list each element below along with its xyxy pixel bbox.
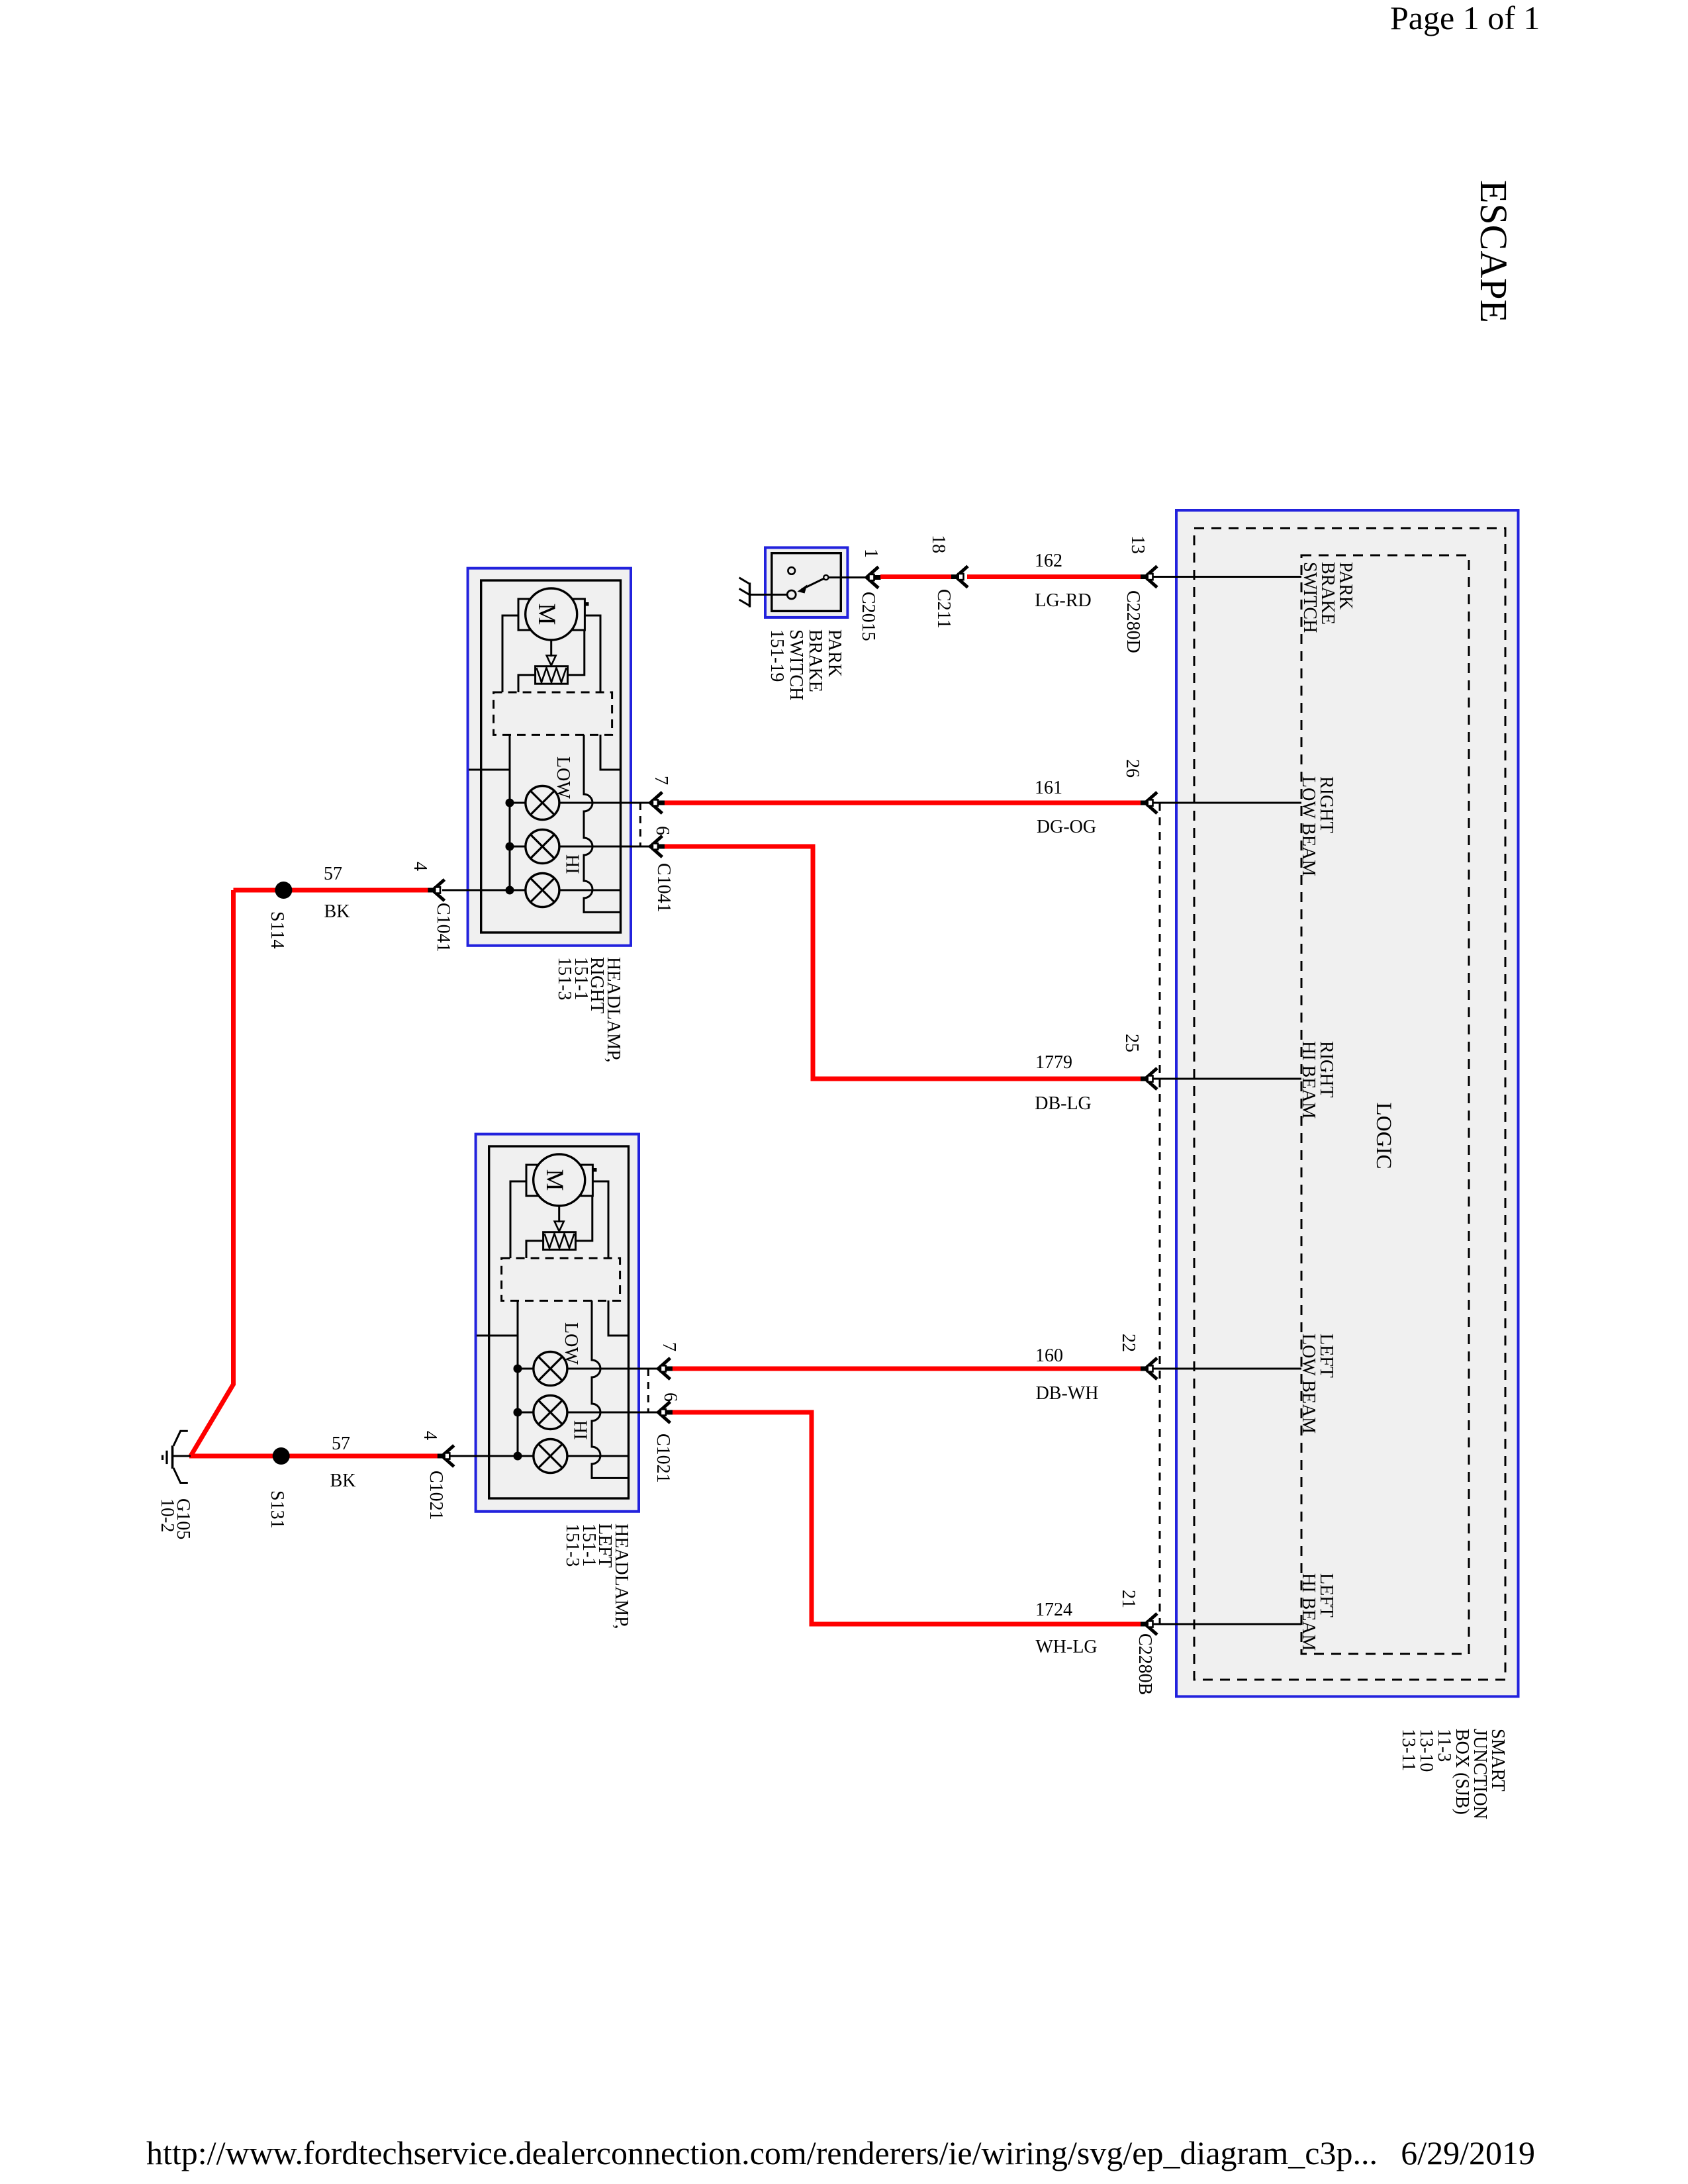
- ground (park brake switch, hatched): [739, 578, 750, 608]
- leveling motor brush (left): [518, 599, 530, 630]
- svg-text:13-11: 13-11: [1398, 1729, 1419, 1771]
- svg-text:21: 21: [1118, 1590, 1139, 1608]
- switch blade with arrowhead: [802, 578, 824, 590]
- internal module (dashed): [502, 1258, 620, 1300]
- svg-text:SWITCH: SWITCH: [786, 629, 806, 700]
- junction dot row 3: [506, 886, 514, 895]
- lamp ground bus: [509, 735, 511, 890]
- wire 1779 (right hi beam): [664, 846, 1141, 1079]
- switch fixed contact (open): [788, 567, 795, 574]
- park brake switch box (blue case): [765, 547, 847, 617]
- headlamp right inner box: [481, 580, 621, 933]
- wire motor shaft to resistor (arrow): [558, 1206, 560, 1222]
- wire row pin 6 (hi beam lamp): [518, 1412, 658, 1414]
- SJB pin 22 label: LEFT LOW BEAM: [1298, 1334, 1336, 1433]
- svg-text:M: M: [533, 604, 560, 625]
- wire row pin 4 (ground): [442, 889, 621, 891]
- SJB internal wire to pin 21: [1152, 1623, 1301, 1625]
- svg-text:C2280D: C2280D: [1123, 590, 1143, 653]
- SJB internal wire to pin 25: [1152, 1078, 1301, 1080]
- polarity dot: [593, 1168, 597, 1172]
- svg-text:S131: S131: [267, 1490, 287, 1529]
- svg-text:LOW: LOW: [553, 756, 573, 799]
- wire module stub B: [608, 1300, 629, 1336]
- lamp ground bus: [517, 1300, 519, 1456]
- junction dot row 1: [514, 1365, 522, 1373]
- junction dot row 2: [514, 1408, 522, 1417]
- svg-text:13: 13: [1127, 535, 1148, 554]
- lamp (third bulb): [526, 874, 559, 907]
- wire motor shaft to resistor (arrow): [550, 640, 552, 657]
- svg-text:LOGIC: LOGIC: [1372, 1103, 1395, 1169]
- lamp HI (bulb): [534, 1396, 567, 1430]
- connector C2280 dashed line: [1159, 803, 1161, 1624]
- ground G105 label: [157, 1498, 193, 1539]
- wire motor left brush: [502, 615, 518, 692]
- motor M2 circle: [534, 1154, 585, 1206]
- headlamp left inner box: [489, 1146, 629, 1498]
- SJB box (blue case): [1176, 510, 1519, 1696]
- wire case jog to lamp bus: [469, 769, 510, 771]
- svg-text:18: 18: [928, 535, 949, 553]
- svg-text:1779: 1779: [1035, 1052, 1072, 1073]
- svg-text:Page 1 of 1: Page 1 of 1: [1390, 0, 1540, 36]
- svg-text:26: 26: [1122, 759, 1143, 778]
- SJB LOGIC block (dashed): [1301, 555, 1469, 1654]
- svg-text:7: 7: [651, 776, 671, 785]
- svg-text:C211: C211: [933, 589, 954, 629]
- switch contact at pin 1: [823, 575, 828, 580]
- leveling motor brush (right): [573, 599, 585, 630]
- svg-text:ESCAPE: ESCAPE: [1472, 180, 1515, 323]
- headlamp right box (blue case): [468, 569, 631, 946]
- park brake switch inner box: [772, 553, 841, 612]
- junction dot row 2: [506, 842, 514, 851]
- lamp HI (bulb): [526, 830, 559, 864]
- svg-text:57: 57: [324, 864, 342, 884]
- svg-text:151-3: 151-3: [562, 1524, 583, 1567]
- wire: switch to ground: [750, 594, 788, 596]
- svg-text:SWITCH: SWITCH: [1299, 562, 1320, 633]
- headlamp right pin 4 arrow: [428, 880, 445, 901]
- svg-text:BK: BK: [330, 1471, 356, 1491]
- headlamp left pin 6 arrow: [658, 1402, 673, 1423]
- leveling motor brush (left): [526, 1165, 538, 1196]
- wire 57 BK (right, S114 to C1041 pin 4): [234, 888, 430, 893]
- svg-text:C1021: C1021: [426, 1471, 446, 1520]
- wire row pin 4 (ground): [442, 1455, 629, 1457]
- SJB pin 26 label: RIGHT LOW BEAM: [1298, 776, 1336, 876]
- wire motor right brush: [592, 1181, 608, 1258]
- ground wire trunk (S114 to G105): [191, 890, 234, 1456]
- svg-text:6/29/2019: 6/29/2019: [1401, 2134, 1535, 2171]
- SJB pin 21 arrow (C2280B): [1141, 1614, 1157, 1635]
- lamp LOW (bulb): [526, 786, 559, 820]
- internal module (dashed): [494, 692, 612, 735]
- svg-text:WH-LG: WH-LG: [1035, 1637, 1097, 1657]
- splice S114: [275, 882, 292, 899]
- connector C211 arrow: [951, 567, 968, 588]
- svg-text:LOW BEAM: LOW BEAM: [1298, 1334, 1319, 1433]
- svg-text:BK: BK: [324, 901, 350, 922]
- svg-text:25: 25: [1121, 1034, 1142, 1052]
- svg-text:C1041: C1041: [433, 903, 453, 952]
- svg-text:PARK: PARK: [824, 629, 845, 677]
- headlamp right pin 6 arrow: [650, 836, 665, 857]
- svg-text:DB-WH: DB-WH: [1036, 1383, 1099, 1404]
- svg-text:57: 57: [332, 1433, 350, 1454]
- svg-text:LOW BEAM: LOW BEAM: [1298, 776, 1319, 876]
- svg-text:C2015: C2015: [858, 592, 878, 641]
- svg-text:1: 1: [861, 549, 881, 558]
- SJB pin 21 label: LEFT HI BEAM: [1298, 1573, 1336, 1651]
- wire: switch to pin 1: [829, 576, 867, 578]
- wire resistor left: [526, 1241, 543, 1258]
- motor M1 circle: [526, 588, 577, 640]
- wire 160 (left low beam): [672, 1367, 1141, 1371]
- svg-text:M: M: [541, 1169, 568, 1191]
- wire row pin 6 (hi beam lamp): [510, 846, 650, 848]
- park brake switch label: [767, 629, 845, 700]
- SJB name label: SMART JUNCTION BOX (SJB) 11-3 13-10 13-11: [1398, 1729, 1508, 1819]
- svg-text:HI: HI: [570, 1420, 590, 1440]
- SJB internal wire to pin 22: [1152, 1368, 1301, 1370]
- leveling motor brush (right): [581, 1165, 592, 1196]
- headlamp left pin 4 arrow: [438, 1445, 454, 1467]
- svg-text:C1041: C1041: [653, 863, 674, 913]
- variable resistor (leveling): [536, 666, 568, 684]
- connector C1041 dashed link (pins 7-6): [639, 803, 641, 846]
- wire module stub B: [600, 735, 621, 770]
- svg-text:162: 162: [1035, 551, 1062, 571]
- junction dot row 1: [506, 799, 514, 807]
- connector C1021 dashed link (pins 7-6): [647, 1369, 649, 1412]
- svg-text:7: 7: [659, 1342, 679, 1351]
- svg-text:DB-LG: DB-LG: [1035, 1093, 1092, 1114]
- SJB outer dashed boundary: [1194, 528, 1505, 1680]
- wire resistor right: [576, 1196, 592, 1241]
- svg-text:C1021: C1021: [653, 1433, 673, 1483]
- svg-text:4: 4: [410, 862, 430, 871]
- lamp LOW (bulb): [534, 1352, 567, 1386]
- svg-text:151-19: 151-19: [767, 629, 787, 682]
- svg-text:1724: 1724: [1035, 1600, 1072, 1620]
- lamp (third bulb): [534, 1439, 567, 1473]
- SJB internal wire to pin 13: [1152, 576, 1301, 578]
- headlamp right pin 7 arrow: [650, 792, 665, 813]
- wire module stub A (with crossover hops): [584, 735, 621, 912]
- svg-text:6: 6: [660, 1392, 680, 1402]
- wire resistor right: [568, 630, 585, 675]
- wire row pin 7 (low beam lamp): [518, 1368, 658, 1370]
- wire row pin 7 (low beam lamp): [510, 802, 650, 804]
- svg-text:22: 22: [1118, 1334, 1139, 1352]
- polarity dot: [585, 602, 589, 606]
- svg-text:6: 6: [652, 826, 673, 835]
- SJB pin 22 arrow: [1141, 1358, 1157, 1379]
- wire 162 segment (C211 to SJB pin 13): [967, 574, 1141, 579]
- headlamp left box (blue case): [476, 1134, 639, 1512]
- svg-text:HI BEAM: HI BEAM: [1298, 1041, 1319, 1119]
- svg-text:HI BEAM: HI BEAM: [1298, 1573, 1319, 1651]
- wire resistor left: [518, 675, 536, 692]
- connector pin 1 (C2015) arrow: [867, 567, 881, 588]
- SJB pin 13 label: PARK BRAKE SWITCH: [1299, 562, 1356, 633]
- svg-text:DG-OG: DG-OG: [1037, 817, 1096, 837]
- headlamp left pin 7 arrow: [658, 1358, 673, 1379]
- wire 1724 (left hi beam): [672, 1412, 1141, 1624]
- junction dot row 3: [514, 1452, 522, 1461]
- SJB pin 26 arrow: [1141, 792, 1157, 813]
- switch pivot contact: [787, 590, 796, 599]
- svg-text:LG-RD: LG-RD: [1035, 590, 1092, 611]
- svg-text:10-2: 10-2: [157, 1498, 177, 1532]
- wire 162 segment (pin1 to C211): [880, 574, 952, 579]
- svg-text:4: 4: [420, 1431, 440, 1440]
- svg-text:160: 160: [1035, 1345, 1063, 1366]
- wire motor left brush: [510, 1181, 526, 1258]
- splice S131: [273, 1447, 290, 1465]
- headlamp left name label: [562, 1524, 632, 1629]
- svg-text:BRAKE: BRAKE: [805, 629, 825, 692]
- svg-text:C2280B: C2280B: [1135, 1633, 1155, 1695]
- headlamp right name label: [554, 957, 624, 1062]
- SJB pin 25 label: RIGHT HI BEAM: [1298, 1041, 1336, 1119]
- wire case jog to lamp bus: [477, 1335, 518, 1337]
- svg-text:LOW: LOW: [561, 1322, 581, 1365]
- ground G105 symbol: [163, 1431, 191, 1482]
- SJB pin 13 arrow (C2280D): [1141, 567, 1157, 588]
- svg-text:151-3: 151-3: [554, 957, 575, 1000]
- wire module stub A (with crossover hops): [592, 1300, 629, 1478]
- svg-text:http://www.fordtechservice.dea: http://www.fordtechservice.dealerconnect…: [146, 2134, 1378, 2171]
- variable resistor (leveling): [543, 1232, 576, 1250]
- SJB internal wire to pin 26: [1152, 802, 1301, 804]
- svg-text:S114: S114: [267, 911, 287, 949]
- svg-text:HI: HI: [562, 854, 583, 874]
- wire motor right brush: [585, 615, 600, 692]
- wire 161 (right low beam): [664, 801, 1141, 805]
- SJB pin 25 arrow: [1141, 1068, 1157, 1089]
- wire 57 BK (left, G105 to C1021 pin 4): [189, 1454, 438, 1459]
- svg-text:161: 161: [1035, 778, 1062, 798]
